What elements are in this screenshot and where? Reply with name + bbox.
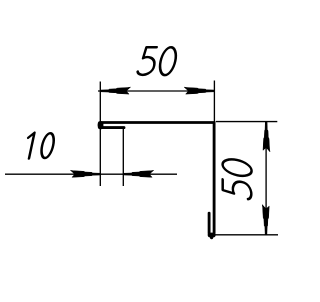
arrowhead 10 right bbox=[123, 170, 153, 177]
bottom hem fold (solid) bbox=[208, 233, 216, 238]
arrowhead 10 left bbox=[70, 170, 100, 177]
bottom hem fold nub bbox=[210, 235, 214, 240]
label 10 bbox=[24, 133, 56, 159]
top-left hem fold (solid) bbox=[98, 121, 104, 129]
dimension line top (50) bbox=[98, 90, 214, 92]
extension line right bbox=[213, 81, 215, 124]
extension line bottom-right horizontal bbox=[211, 234, 278, 236]
label 50 top bbox=[137, 47, 178, 75]
extension line mid bbox=[122, 129, 124, 186]
arrowhead top-50 left bbox=[100, 87, 130, 94]
arrowhead right-50 bottom bbox=[262, 205, 269, 235]
extension line top-right horizontal bbox=[216, 121, 277, 123]
extension line left bbox=[99, 82, 101, 187]
label 50 right (rotated) bbox=[223, 157, 252, 200]
profile: L-shaped sheet with hemmed ends (thick outline) bbox=[99, 123, 214, 236]
arrowhead top-50 right bbox=[184, 87, 214, 94]
dimension line 10 bbox=[5, 173, 177, 175]
arrowhead right-50 top bbox=[263, 122, 270, 152]
dimension line right (50) bbox=[265, 122, 267, 235]
